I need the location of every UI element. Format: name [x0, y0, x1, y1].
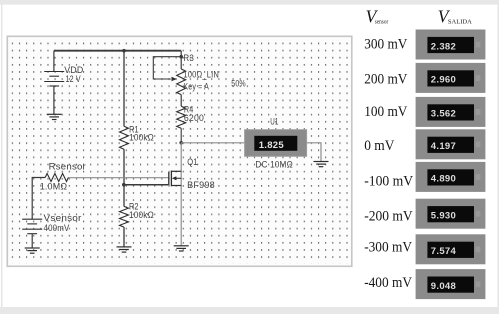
svg-text:sensor: sensor [375, 20, 388, 26]
svg-text:-200 mV: -200 mV [364, 208, 413, 224]
transistor Q1 source lead [171, 185, 181, 187]
node divider junction [122, 183, 126, 187]
wire wiper loop [153, 57, 181, 79]
svg-text:100Ω_LIN: 100Ω_LIN [183, 70, 219, 80]
potentiometer R3 wiper arrow [172, 77, 177, 81]
wire drain-source column to ground [180, 143, 182, 246]
battery Vsensor [22, 219, 42, 234]
wire Rsensor to gate1 [68, 177, 168, 179]
wire R4 to drain node [180, 128, 182, 143]
top gray band [0, 0, 499, 5]
transistor Q1 body bar [170, 171, 172, 187]
header V SALIDA [438, 6, 473, 26]
svg-text:5.930: 5.930 [431, 211, 456, 222]
battery VDD [44, 72, 64, 87]
wire VDD to battery [53, 51, 55, 72]
resistor R2 [120, 206, 129, 227]
wire VDD top rail [54, 50, 181, 52]
svg-text:R3: R3 [183, 53, 194, 63]
meter image row 7 [416, 234, 486, 264]
ground under Q1 source [174, 246, 189, 251]
wire divider node to gate2 [124, 184, 169, 186]
label Key = A [183, 82, 209, 92]
row label -200 mV [364, 208, 413, 224]
row label 100 mV [364, 104, 408, 120]
svg-text:DC 10MΩ: DC 10MΩ [255, 160, 293, 170]
svg-text:6200: 6200 [184, 113, 204, 123]
left page edge line [1, 4, 3, 307]
right page edge line [497, 4, 499, 307]
wire R1 to divider node [123, 149, 125, 206]
svg-text:-300 mV: -300 mV [364, 240, 412, 256]
label R4 [184, 105, 194, 115]
meter image row 1 [416, 30, 486, 60]
svg-text:4.197: 4.197 [431, 141, 456, 152]
row label 200 mV [364, 72, 408, 88]
wire Rsensor left lead [32, 178, 45, 220]
transistor Q1 drain lead [171, 170, 181, 172]
voltmeter U1 display [254, 136, 297, 151]
svg-text:400mV: 400mV [44, 223, 70, 233]
label 100 ohm LIN [183, 70, 219, 80]
label 1.0M ohm [40, 181, 68, 191]
grid dot pattern [10, 39, 349, 263]
meter image row 4 [416, 129, 486, 159]
svg-text:9.048: 9.048 [431, 281, 456, 292]
transistor Q1 gate bar [168, 172, 170, 185]
wire Vsensor to ground [31, 234, 33, 248]
svg-text:1.825: 1.825 [259, 140, 285, 151]
row label -100 mV [364, 173, 413, 189]
schematic panel border [7, 36, 352, 266]
svg-text:Key = A: Key = A [183, 82, 209, 92]
svg-text:2.960: 2.960 [431, 75, 456, 86]
voltmeter U1 reading 1.825 [259, 140, 285, 151]
label 12 V [66, 74, 81, 84]
svg-text:0 mV: 0 mV [364, 138, 395, 154]
meter image row 3 [416, 97, 486, 127]
wire top rail down to R3 [180, 51, 182, 69]
meter image row 6 [416, 199, 486, 229]
ground under R2 [117, 247, 132, 252]
wire R3 to R4 [180, 95, 182, 107]
ground under VDD [47, 114, 62, 119]
svg-text:4.890: 4.890 [431, 174, 456, 185]
svg-text:3.562: 3.562 [431, 109, 456, 120]
svg-text:SALIDA: SALIDA [448, 19, 472, 26]
svg-text:BF998: BF998 [187, 180, 215, 190]
label 6200 [184, 113, 204, 123]
svg-text:100kΩ: 100kΩ [129, 132, 154, 142]
resistor Rsensor [45, 174, 68, 182]
svg-text:-400 mV: -400 mV [364, 275, 412, 291]
row label -400 mV [364, 275, 412, 291]
label R2 [129, 202, 139, 212]
meter image row 8 [416, 269, 486, 299]
svg-text:7.574: 7.574 [431, 246, 457, 257]
svg-text:2.382: 2.382 [431, 41, 456, 52]
row label -300 mV [364, 240, 412, 256]
svg-text:12 V: 12 V [66, 74, 81, 84]
wire voltmeter to ground [307, 143, 321, 162]
svg-text:300 mV: 300 mV [364, 36, 408, 52]
bottom gray band [0, 307, 499, 314]
label U1 [270, 117, 278, 127]
svg-text:Vsensor: Vsensor [44, 213, 82, 223]
label Vsensor [44, 213, 82, 223]
label R3 [183, 53, 194, 63]
header V sensor [366, 6, 389, 26]
row label 0 mV [364, 138, 395, 154]
svg-text:-100 mV: -100 mV [364, 173, 413, 189]
wire top rail down to R1 [123, 51, 125, 127]
node junction top rail / R1 [122, 49, 126, 53]
label Rsensor [49, 162, 86, 172]
svg-text:100kΩ: 100kΩ [129, 210, 154, 220]
label DC 10M ohm [255, 160, 293, 170]
label 100k ohm (R2) [129, 210, 154, 220]
label 400mV [44, 223, 70, 233]
label 100k ohm (R1) [129, 132, 154, 142]
label Q1 [187, 157, 197, 167]
wire drain node to voltmeter [181, 142, 244, 144]
meter image row 5 [416, 162, 486, 192]
label VDD [64, 65, 83, 75]
resistor R4 [177, 106, 186, 128]
ground under Vsensor [25, 248, 40, 253]
label BF998 [187, 180, 215, 190]
svg-text:Rsensor: Rsensor [49, 162, 86, 172]
svg-text:Q1: Q1 [187, 157, 197, 167]
wire battery to ground [53, 86, 55, 114]
ground at voltmeter [314, 162, 329, 167]
transistor Q1 substrate arrow [172, 176, 181, 180]
svg-text:U1: U1 [270, 117, 278, 127]
svg-text:1.0MΩ: 1.0MΩ [40, 181, 68, 191]
potentiometer R3 body [177, 69, 186, 95]
svg-text:100 mV: 100 mV [364, 104, 408, 120]
resistor R1 [120, 126, 129, 149]
node R3 wiper tap junction [179, 55, 183, 59]
svg-text:200 mV: 200 mV [364, 72, 408, 88]
row label 300 mV [364, 36, 408, 52]
label 50% [231, 78, 246, 88]
label R1 [129, 125, 139, 135]
svg-text:50%: 50% [231, 78, 246, 88]
wire R2 to ground [123, 227, 125, 247]
node drain junction [179, 141, 183, 145]
meter image row 2 [416, 63, 486, 93]
voltmeter U1 body [245, 130, 307, 157]
